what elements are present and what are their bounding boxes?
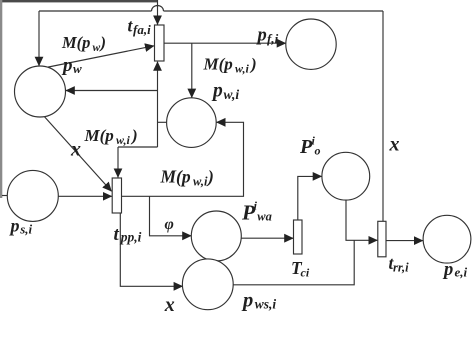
svg-text:t: t: [114, 224, 120, 245]
svg-text:M(p: M(p: [160, 167, 191, 187]
svg-text:): ): [130, 126, 138, 145]
svg-text:w,i: w,i: [116, 133, 131, 147]
svg-text:p: p: [241, 290, 253, 312]
svg-text:s,i: s,i: [19, 222, 32, 237]
svg-text:w: w: [73, 61, 82, 76]
svg-text:wa: wa: [257, 210, 272, 224]
svg-text:e,i: e,i: [455, 265, 468, 280]
svg-text:ws,i: ws,i: [255, 297, 277, 312]
svg-text:): ): [249, 55, 257, 74]
svg-text:w,i: w,i: [224, 87, 240, 102]
svg-text:f,i: f,i: [267, 31, 279, 46]
svg-text:w,i: w,i: [193, 175, 208, 189]
svg-text:x: x: [70, 139, 81, 161]
svg-text:x: x: [164, 294, 175, 316]
svg-text:φ: φ: [165, 216, 174, 233]
svg-text:rr,i: rr,i: [393, 261, 409, 275]
svg-text:M(p: M(p: [203, 55, 233, 74]
svg-text:): ): [206, 167, 214, 187]
svg-text:ci: ci: [301, 266, 310, 280]
svg-text:p: p: [211, 81, 223, 102]
svg-text:o: o: [315, 144, 321, 158]
svg-text:fa,i: fa,i: [133, 22, 151, 37]
svg-text:p: p: [9, 216, 20, 236]
svg-text:M(p: M(p: [84, 126, 114, 145]
svg-text:w: w: [93, 42, 101, 54]
svg-text:p: p: [442, 260, 453, 280]
svg-text:x: x: [389, 134, 400, 156]
svg-text:): ): [99, 33, 107, 52]
svg-text:M(p: M(p: [61, 33, 90, 52]
svg-text:p: p: [256, 25, 267, 45]
svg-text:p: p: [61, 55, 73, 76]
svg-text:pp,i: pp,i: [120, 230, 142, 245]
svg-text:w,i: w,i: [235, 62, 250, 76]
